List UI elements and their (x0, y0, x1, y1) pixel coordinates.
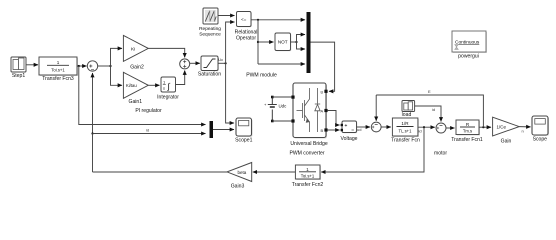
node branch (109, 65, 111, 67)
scope Scope (532, 116, 549, 136)
svg-text:Transfer Fcn: Transfer Fcn (391, 138, 420, 144)
integrator block (161, 77, 176, 93)
svg-text:Scope1: Scope1 (235, 138, 252, 144)
repeating sequence block (203, 8, 219, 25)
dc source Udc (264, 97, 277, 121)
svg-text:A: A (321, 108, 324, 113)
mux for Scope1 (210, 121, 214, 138)
svg-text:1/R: 1/R (401, 121, 409, 126)
wire RepSeq to RelOp (218, 15, 235, 17)
node id tap (423, 126, 425, 128)
svg-text:Operator: Operator (236, 36, 256, 42)
wire NOT to mux input3 (297, 42, 306, 49)
svg-text:Ki/tau: Ki/tau (126, 83, 137, 88)
svg-text:Gain1: Gain1 (129, 99, 143, 105)
wire branch to Ki (111, 48, 123, 66)
wire RelOp down (257, 20, 259, 64)
wire Uc up to Relational Operator (226, 22, 235, 63)
wire Ki to sum2 top (148, 48, 184, 57)
svg-text:E: E (428, 89, 431, 94)
svg-text:Transfer Fcn3: Transfer Fcn3 (42, 76, 74, 82)
universal bridge block (291, 83, 327, 139)
sum junction sum1 (87, 61, 97, 71)
wire NOT to mux input2 (297, 35, 306, 43)
node E tap (482, 126, 484, 128)
node Uc (225, 62, 227, 64)
wire Gain to Scope (519, 126, 530, 128)
svg-text:Toi.s+1: Toi.s+1 (51, 68, 65, 73)
saturation block (201, 56, 219, 71)
powergui block (452, 31, 487, 53)
wire sum3 to Transfer Fcn (381, 126, 391, 128)
wire voltage to sum3 (357, 126, 371, 128)
svg-text:Transfer Fcn1: Transfer Fcn1 (451, 137, 483, 143)
node feedback to mux (91, 132, 93, 134)
svg-text:Uc: Uc (218, 57, 223, 62)
svg-text:Continuous: Continuous (455, 40, 480, 46)
sum junction sum4 (436, 123, 446, 133)
wire feedback to mux input2 (93, 133, 206, 135)
svg-text:Gain2: Gain2 (130, 64, 144, 70)
diode (317, 88, 319, 132)
wire branch to Ki/tau (111, 66, 123, 85)
svg-text:load: load (402, 112, 412, 118)
svg-text:Sequence: Sequence (199, 32, 221, 38)
wire E feedback (376, 95, 483, 127)
wire sum2 to Saturation (190, 62, 200, 64)
wire E down into sum3 (375, 95, 377, 121)
transfer function Transfer Fcn (392, 118, 419, 137)
svg-text:TL.s+1: TL.s+1 (399, 129, 413, 134)
svg-text:Repeating: Repeating (199, 26, 221, 32)
svg-text:Gain3: Gain3 (231, 183, 245, 189)
svg-text:Scope: Scope (533, 137, 548, 143)
svg-text:Ki: Ki (131, 46, 135, 52)
sum junction sum2 (180, 59, 190, 69)
gain Gain2 (Ki) (123, 35, 148, 61)
node NOT out (295, 41, 297, 43)
wire Gain3 to feedback (93, 171, 228, 173)
svg-text:ud: ud (357, 127, 361, 132)
svg-text:id: id (419, 129, 422, 134)
wire to NOT (258, 41, 274, 43)
svg-text:Saturation: Saturation (198, 72, 221, 78)
wire feedback up into sum1 (92, 73, 94, 134)
relational operator block (237, 12, 252, 28)
svg-text:Integrator: Integrator (157, 95, 179, 101)
scope Scope1 (236, 118, 253, 137)
svg-text:Universal Bridge: Universal Bridge (290, 141, 328, 147)
svg-text:B: B (321, 128, 324, 133)
svg-text:Tm.s: Tm.s (463, 129, 472, 134)
transfer function Transfer Fcn3 (39, 57, 78, 76)
node u* branch (78, 65, 80, 67)
wire Ki/tau to Integrator (148, 84, 159, 86)
node RelOp branch (257, 19, 259, 21)
wire Integrator to sum2 bottom (176, 71, 185, 85)
wire RelOp to mux input4 (258, 63, 305, 65)
svg-text:g: g (321, 89, 323, 94)
svg-text:powergui: powergui (458, 54, 479, 60)
wire Step1 to Transfer Fcn3 (26, 64, 38, 66)
svg-text:Toi.s+1: Toi.s+1 (301, 173, 315, 178)
svg-text:Step1: Step1 (12, 73, 25, 79)
svg-text:1/Ce: 1/Ce (497, 125, 507, 130)
svg-text:PWM module: PWM module (246, 73, 277, 79)
wire Udc top to bridge (272, 96, 291, 98)
wire NOT out (291, 41, 297, 43)
wire Uc down to Scope1 (226, 63, 234, 123)
sum junction sum3 (371, 122, 381, 132)
wire TFcn2 to Gain3 (253, 171, 296, 173)
wire TFcn3 to sum1 (77, 65, 87, 67)
wire Udc bottom to bridge (272, 120, 291, 122)
igbt icon (297, 88, 321, 132)
logic NOT block (275, 33, 291, 51)
svg-text:PWM converter: PWM converter (289, 151, 324, 157)
svg-text:1: 1 (57, 60, 60, 65)
wire mux to Scope1 (213, 129, 234, 131)
wire bridge B to voltage - (328, 129, 340, 131)
ports (291, 96, 294, 99)
wire saturation out to node (218, 62, 226, 64)
svg-text:PI regulator: PI regulator (135, 108, 162, 114)
wire sum4 to Transfer Fcn1 (446, 127, 455, 129)
wire u* down to mux (79, 66, 206, 125)
step source load (402, 101, 415, 113)
gain Gain1 (Ki/tau) (123, 72, 148, 98)
wire mux to bridge g (311, 42, 335, 91)
wire id tap down to Transfer Fcn2 (321, 127, 424, 172)
svg-text:beta: beta (238, 170, 247, 175)
wire TFcn1 to Gain (479, 126, 491, 128)
svg-text:motor: motor (434, 151, 447, 157)
node NOT branch (257, 41, 259, 43)
svg-text:s: s (163, 86, 165, 91)
voltage measurement block (341, 121, 358, 133)
wire TFcn out (418, 126, 435, 128)
svg-text:id: id (146, 128, 149, 133)
gain Gain3 (beta) (227, 163, 252, 182)
svg-text:Voltage: Voltage (341, 136, 358, 142)
wire feedback bottom vertical (92, 134, 94, 173)
step source Step1 (11, 57, 27, 73)
svg-text:Udc: Udc (279, 104, 288, 109)
mux gate signals (307, 12, 311, 73)
svg-text:Transfer Fcn2: Transfer Fcn2 (292, 182, 324, 188)
transfer function Transfer Fcn2 (295, 165, 321, 180)
wire bridge A to voltage + (328, 111, 340, 126)
svg-text:<=: <= (241, 17, 247, 22)
wire sum1 to branch node (98, 65, 111, 67)
gain Gain (1/Ce) (493, 117, 520, 136)
svg-text:Gain: Gain (501, 139, 512, 145)
svg-text:id: id (432, 107, 435, 112)
wire RelOp out to mux input1 (251, 19, 305, 21)
wire load to sum4 (415, 106, 441, 122)
svg-text:NOT: NOT (278, 40, 288, 45)
transfer function Transfer Fcn1 (456, 120, 480, 136)
svg-text:n: n (522, 129, 524, 134)
